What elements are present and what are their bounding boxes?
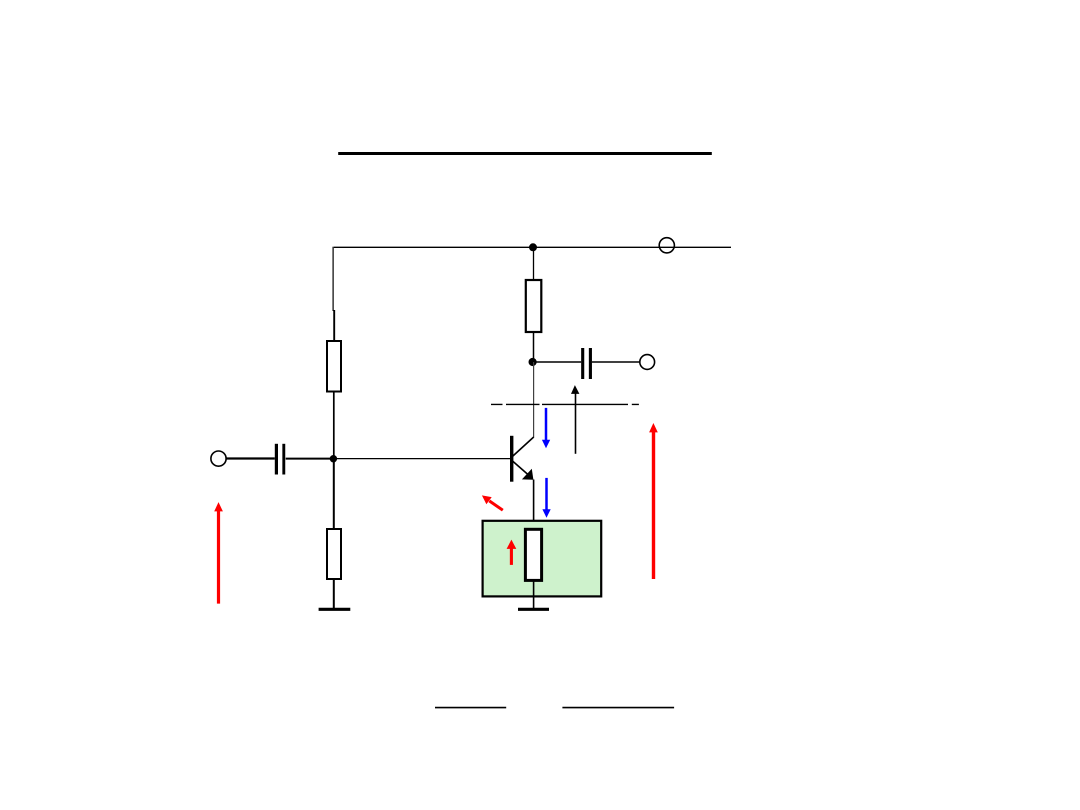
wire collector node down to transistor xyxy=(533,362,535,438)
dashed reference line xyxy=(491,403,639,405)
arrow blue emitter current lower xyxy=(542,478,550,518)
node base junction xyxy=(330,455,337,462)
wire R2 to ground xyxy=(333,579,335,609)
resistor R2 xyxy=(327,529,341,579)
resistor RC xyxy=(526,280,542,332)
blank line 2 xyxy=(562,707,674,709)
arrow blue collector current upper xyxy=(542,408,550,448)
wire collector node to C2 xyxy=(534,361,582,363)
wire C2 to output terminal xyxy=(592,361,640,363)
arrow red output voltage xyxy=(649,423,658,579)
wire base node to transistor base xyxy=(334,458,510,460)
capacitor C1 xyxy=(276,444,283,475)
wire emitter down to RE xyxy=(533,480,535,531)
node top rail junction xyxy=(529,243,537,251)
wire R1 to base node xyxy=(333,392,335,459)
terminal input xyxy=(211,451,226,466)
wire C1 to base node xyxy=(286,458,334,460)
ground right xyxy=(518,608,549,611)
node collector junction xyxy=(529,358,537,366)
terminal VCC on rail xyxy=(659,238,674,253)
wire base node down to R2 xyxy=(333,459,335,530)
blank line 1 xyxy=(435,707,506,709)
wire RE to ground xyxy=(533,580,535,609)
arrow red small inside green box xyxy=(507,540,517,565)
wire top supply rail xyxy=(334,246,731,248)
resistor RE xyxy=(525,529,541,580)
resistor R1 xyxy=(327,341,341,392)
title underline xyxy=(338,152,712,155)
arrow red diagonal base current xyxy=(482,495,503,510)
arrow black VCE up xyxy=(571,385,579,454)
wire RC to collector node xyxy=(533,332,535,362)
capacitor C2 xyxy=(583,348,591,379)
wire rail down to RC xyxy=(533,247,535,281)
green highlight box xyxy=(483,521,602,597)
arrow red input voltage xyxy=(214,502,223,603)
transistor Q1 xyxy=(512,436,534,482)
wire left vertical from rail (thin upper segment) xyxy=(332,247,334,311)
wire left vertical to R1 (thicker lower segment) xyxy=(333,310,335,342)
terminal output xyxy=(640,355,655,370)
wire input terminal to C1 xyxy=(226,457,275,459)
ground left xyxy=(319,608,351,611)
